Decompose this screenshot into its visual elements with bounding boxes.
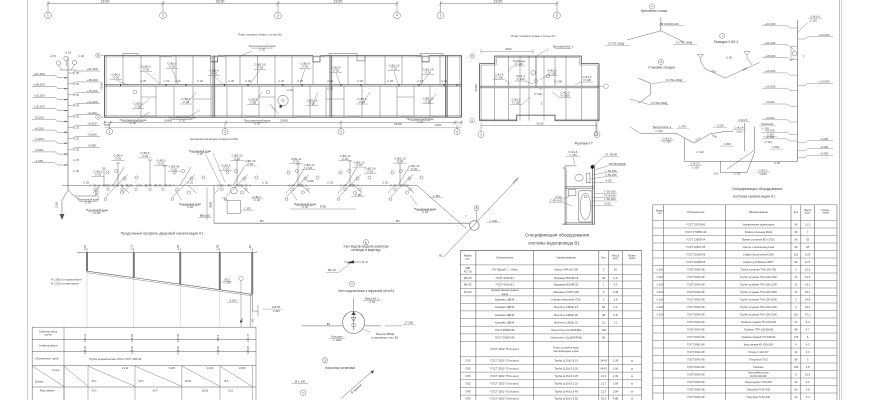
svg-text:0,4: 0,4: [614, 305, 618, 309]
profile table uklon/dlina row: [63, 366, 65, 400]
svg-text:∅ 20: ∅ 20: [174, 79, 181, 83]
svg-text:5,4: 5,4: [806, 320, 810, 324]
svg-text:99,3: 99,3: [224, 277, 230, 281]
svg-text:К-50: К-50: [605, 202, 611, 206]
svg-text:0,46: 0,46: [613, 290, 619, 294]
svg-text:∅ 100: ∅ 100: [569, 153, 577, 157]
svg-text:0,000: 0,000: [773, 145, 780, 149]
svg-text:-1,180: -1,180: [354, 193, 362, 197]
svg-text:∅ 20: ∅ 20: [417, 120, 424, 124]
svg-text:∅ 100: ∅ 100: [495, 76, 503, 80]
axon B1 main pipe: [62, 184, 417, 186]
svg-text:102: 102: [794, 252, 799, 256]
svg-text:ГОСТ 6942-98: ГОСТ 6942-98: [687, 290, 705, 294]
svg-text:ГОСТ 6942-98: ГОСТ 6942-98: [687, 387, 705, 391]
svg-text:∅ 100: ∅ 100: [691, 165, 699, 169]
svg-text:∅ 20: ∅ 20: [257, 66, 264, 70]
svg-text:∅ 15: ∅ 15: [417, 79, 424, 83]
svg-text:96: 96: [602, 276, 605, 280]
svg-text:+3,200: +3,200: [87, 133, 97, 137]
svg-text:∅ 25: ∅ 25: [327, 180, 334, 184]
svg-text:33: 33: [794, 290, 797, 294]
svg-text:+18,200: +18,200: [86, 78, 97, 82]
svg-text:Фрагмент Т: Фрагмент Т: [575, 142, 593, 146]
svg-text:37,-98,98: 37,-98,98: [605, 153, 617, 157]
plan B1 balcony door sills: [143, 116, 154, 118]
svg-text:ГОСТ 6942-98: ГОСТ 6942-98: [687, 282, 705, 286]
svg-text:К-50: К-50: [606, 178, 612, 182]
svg-text:-1,180: -1,180: [432, 194, 440, 198]
svg-text:ГОСТ 3262-75 (в асм.): ГОСТ 3262-75 (в асм.): [490, 389, 519, 393]
svg-text:+9,000: +9,000: [765, 100, 774, 104]
svg-text:∅ 20: ∅ 20: [183, 100, 190, 104]
svg-text:СтК1-2: СтК1-2: [759, 168, 768, 172]
plan B1 stairwell circle: [278, 95, 288, 105]
svg-text:124,43: 124,43: [83, 334, 87, 342]
profile top line: [77, 251, 257, 253]
svg-text:ГОСТ 3262-75 (в асм.): ГОСТ 3262-75 (в асм.): [490, 359, 519, 363]
svg-text:125,2: 125,2: [216, 334, 220, 341]
svg-text:∅ 20: ∅ 20: [425, 100, 432, 104]
svg-text:∅ 20: ∅ 20: [411, 167, 418, 171]
svg-text:∅ 20: ∅ 20: [342, 157, 349, 161]
svg-text:-1,020: -1,020: [716, 124, 724, 128]
svg-text:22,7: 22,7: [601, 382, 607, 386]
svg-text:10,6: 10,6: [805, 372, 811, 376]
svg-text:+3,200: +3,200: [34, 137, 44, 141]
svg-text:Выпуск КК1-1: Выпуск КК1-1: [653, 125, 672, 129]
riser B1 top fixtures: [56, 61, 60, 65]
svg-text:∅ 20: ∅ 20: [163, 79, 170, 83]
svg-text:Стыковка отводов: Стыковка отводов: [648, 65, 675, 69]
svg-text:0,050: 0,050: [239, 366, 246, 370]
svg-text:13100: 13100: [435, 124, 442, 127]
svg-text:∅ 20: ∅ 20: [425, 71, 432, 75]
svg-text:Компакс ЦВНА: Компакс ЦВНА: [495, 298, 515, 302]
svg-text:96: 96: [794, 260, 797, 264]
svg-text:0 СТЕ-166Д: 0 СТЕ-166Д: [676, 40, 692, 44]
plan K1 mid wall: [480, 85, 599, 87]
svg-text:∅ 20: ∅ 20: [223, 166, 230, 170]
svg-text:∅ 100: ∅ 100: [583, 78, 591, 82]
svg-text:Г-50-250: Г-50-250: [605, 173, 617, 177]
svg-text:45.7.05: 45.7.05: [464, 271, 472, 273]
svg-text:∅ 20: ∅ 20: [357, 79, 364, 83]
svg-text:28: 28: [806, 245, 809, 249]
svg-text:ГОСТ 6942-98: ГОСТ 6942-98: [687, 327, 705, 331]
svg-text:∅ 25: ∅ 25: [140, 79, 147, 83]
svg-text:∅ 20: ∅ 20: [197, 79, 204, 83]
svg-text:∅ 20: ∅ 20: [95, 172, 102, 176]
svg-text:Клапан обратный ∅50.: Клапан обратный ∅50.: [551, 298, 581, 302]
svg-text:Длина: Длина: [35, 380, 43, 384]
svg-text:Труба Ц-50х3.5 50: Труба Ц-50х3.5 50: [554, 397, 578, 400]
svg-text:∅ 25: ∅ 25: [73, 104, 80, 108]
svg-text:ГОСТ 6942-98: ГОСТ 6942-98: [687, 320, 705, 324]
svg-text:26,0: 26,0: [805, 305, 811, 309]
svg-text:∅ 20: ∅ 20: [356, 163, 363, 167]
svg-text:В1: В1: [327, 322, 331, 326]
svg-text:Вентиль 15Б3р 15: Вентиль 15Б3р 15: [554, 305, 578, 309]
plan B1 partitions upper band: [122, 56, 124, 85]
svg-text:газопроводные оцинк.: газопроводные оцинк.: [553, 350, 579, 353]
svg-text:ГОСТ 6942-98: ГОСТ 6942-98: [687, 380, 705, 384]
svg-text:0,025: 0,025: [169, 366, 176, 370]
svg-text:+12,200: +12,200: [86, 100, 97, 104]
svg-text:24,8: 24,8: [805, 297, 811, 301]
svg-text:22,3: 22,3: [601, 389, 607, 393]
riser K1 vertical: [797, 20, 799, 161]
svg-text:3: 3: [277, 14, 279, 18]
svg-text:0,100: 0,100: [207, 366, 214, 370]
axon B1 watermeter circle: [231, 187, 238, 194]
svg-text:9640: 9640: [505, 47, 512, 51]
svg-text:4,3: 4,3: [614, 283, 618, 287]
svg-text:+12,200: +12,200: [33, 105, 44, 109]
svg-text:1: 1: [109, 130, 111, 134]
svg-text:-7,035: -7,035: [272, 309, 280, 313]
svg-text:Узел подключения к наружной се: Узел подключения к наружной сети В1: [338, 289, 395, 293]
svg-text:∅ 100: ∅ 100: [517, 77, 525, 81]
svg-text:178: 178: [794, 335, 799, 339]
svg-text:1: 1: [440, 14, 442, 18]
svg-text:88: 88: [794, 327, 797, 331]
svg-text:В1: В1: [396, 219, 400, 223]
K1 low horizontal main: [684, 160, 797, 162]
svg-text:Наименование: Наименование: [557, 256, 577, 260]
svg-text:ГОСТ 25809-96: ГОСТ 25809-96: [495, 336, 515, 340]
svg-text:-2,100: -2,100: [766, 135, 775, 139]
svg-text:ГОСТ 3262-75 (в асм.): ГОСТ 3262-75 (в асм.): [490, 382, 519, 386]
svg-text:18,60: 18,60: [202, 388, 209, 392]
svg-text:23100: 23100: [334, 0, 343, 4]
svg-text:∅ 20: ∅ 20: [113, 76, 120, 80]
svg-text:23,00: 23,00: [537, 121, 544, 125]
svg-text:∅ 20: ∅ 20: [254, 122, 261, 126]
svg-text:6,000: 6,000: [230, 298, 237, 302]
svg-text:10: 10: [602, 320, 605, 324]
svg-text:СтК1-2: СтК1-2: [691, 162, 700, 166]
svg-text:ПР-98.5Эх98: ПР-98.5Эх98: [609, 162, 626, 166]
svg-text:125,98: 125,98: [176, 334, 180, 342]
svg-text:∅ 25: ∅ 25: [73, 93, 80, 97]
svg-text:Трубы стальные водо-: Трубы стальные водо-: [553, 345, 580, 349]
svg-text:1,66: 1,66: [613, 366, 619, 370]
svg-text:24: 24: [794, 387, 797, 391]
svg-text:∅ 20: ∅ 20: [367, 169, 374, 173]
svg-text:Труба чугунная ТЧК-100-2200: Труба чугунная ТЧК-100-2200: [740, 312, 777, 316]
svg-text:13,9: 13,9: [805, 275, 811, 279]
plan K1 dim 9640: [481, 50, 533, 52]
riser stack B1 (left elevation ladder): [67, 57, 69, 190]
svg-text:∅ 100: ∅ 100: [534, 92, 542, 96]
svg-text:ГОСТ 6019-83: ГОСТ 6019-83: [496, 283, 515, 287]
svg-text:∅100: ∅100: [656, 275, 663, 279]
svg-text:∅ 20: ∅ 20: [169, 65, 176, 69]
svg-text:на вводе в квартиру: на вводе в квартиру: [351, 248, 381, 252]
svg-text:∅ 25: ∅ 25: [73, 71, 80, 75]
svg-text:+21,000: +21,000: [765, 41, 776, 45]
svg-text:ГОСТ 23658-94: ГОСТ 23658-94: [686, 237, 705, 241]
svg-text:поз.: поз.: [657, 212, 662, 215]
svg-text:Тройник прямой ТП-100х100: Тройник прямой ТП-100х100: [741, 320, 777, 324]
svg-text:ГОСТ 6942-98: ГОСТ 6942-98: [687, 395, 705, 399]
svg-text:3,09: 3,09: [613, 382, 619, 386]
svg-text:1250: 1250: [55, 202, 59, 208]
svg-text:+13,500: +13,500: [819, 80, 830, 84]
svg-text:∅ 25: ∅ 25: [382, 180, 389, 184]
svg-text:∅100: ∅100: [656, 282, 663, 286]
fragment T walls: [562, 166, 576, 168]
svg-text:+15,200: +15,200: [86, 89, 97, 93]
svg-text:3,3: 3,3: [806, 350, 810, 354]
svg-text:3,84: 3,84: [613, 389, 619, 393]
svg-text:Переходник П-50-250: Переходник П-50-250: [745, 380, 772, 384]
plan K1 bottom dimension: [481, 124, 597, 126]
svg-text:Кол: Кол: [601, 256, 606, 260]
svg-text:Спецификация оборудования: Спецификация оборудования: [525, 233, 590, 238]
sheet frame left border: [27, 0, 29, 400]
svg-text:ГОСТ 6942-98: ГОСТ 6942-98: [687, 365, 705, 369]
svg-text:18,60: 18,60: [185, 379, 192, 383]
v zdanie arrow: [341, 372, 372, 399]
svg-text:98: 98: [602, 313, 605, 317]
svg-text:+2,100: +2,100: [765, 129, 774, 133]
svg-text:+6,000: +6,000: [765, 116, 774, 120]
plan B1 outer walls: [105, 55, 211, 57]
svg-text:+15,000: +15,000: [765, 69, 776, 73]
svg-text:Сифон бутылочный СВН: Сифон бутылочный СВН: [743, 252, 774, 256]
svg-text:∅ 20: ∅ 20: [211, 72, 218, 76]
svg-text:∅100: ∅100: [656, 267, 663, 271]
svg-text:∅ 20: ∅ 20: [142, 154, 149, 158]
svg-text:ГОСТ 6942-98: ГОСТ 6942-98: [687, 335, 705, 339]
svg-text:Труба Ц-32х3.2 32: Труба Ц-32х3.2 32: [554, 382, 578, 386]
plan B1 bottom dimension line: [105, 122, 462, 124]
svg-text:128,00: 128,00: [216, 346, 220, 354]
svg-text:∅ 20: ∅ 20: [94, 211, 101, 215]
svg-text:∅ 100: ∅ 100: [548, 72, 556, 76]
K1 vypusk pipe: [640, 132, 676, 134]
svg-text:∅100: ∅100: [656, 297, 663, 301]
svg-text:∅15: ∅15: [465, 359, 471, 363]
fragment T bathtub: [579, 191, 592, 222]
svg-text:∅ 25: ∅ 25: [73, 126, 80, 130]
plan K1 outer walls: [480, 56, 599, 63]
svg-text:∅ 200: ∅ 200: [223, 281, 231, 285]
svg-text:В-100: В-100: [464, 290, 472, 294]
svg-text:96: 96: [794, 222, 797, 226]
plan K1 right tick: [599, 85, 604, 87]
axon B1 vertical connector: [213, 185, 215, 223]
svg-text:∅ 20: ∅ 20: [397, 159, 404, 163]
svg-text:Трубы керамические 150 н ГОС: Трубы керамические 150 н ГОСТ 286-82: [89, 357, 142, 361]
svg-text:системы канализации К1: системы канализации К1: [733, 194, 776, 198]
svg-text:-1,800: -1,800: [723, 142, 731, 146]
svg-text:+15,200: +15,200: [33, 94, 44, 98]
svg-text:0 СТЕ-166Д: 0 СТЕ-166Д: [608, 42, 624, 46]
svg-text:∅ 20: ∅ 20: [197, 152, 204, 156]
svg-text:∅ 20: ∅ 20: [143, 68, 150, 72]
svg-text:ГОСТ 30288-96: ГОСТ 30288-96: [686, 260, 705, 264]
svg-text:24: 24: [794, 380, 797, 384]
svg-text:Т: Т: [465, 214, 467, 218]
svg-text:1: 1: [47, 14, 49, 18]
svg-text:124,76: 124,76: [246, 334, 250, 342]
axis bubbles 1-4: [45, 12, 52, 19]
svg-text:192: 192: [601, 328, 606, 332]
svg-text:0,00: 0,00: [714, 172, 719, 175]
svg-text:Отметка земли: Отметка земли: [39, 344, 58, 348]
svg-text:Патрубок П-50: Патрубок П-50: [749, 357, 768, 361]
node Б: apartment entry valve unit: [363, 240, 368, 245]
svg-text:ГОСТ 25809-96: ГОСТ 25809-96: [495, 328, 515, 332]
svg-text:+9,200: +9,200: [34, 115, 44, 119]
svg-text:+6,200: +6,200: [34, 126, 44, 130]
plan B1 top dip notch 2: [357, 56, 365, 61]
svg-text:∅ 25: ∅ 25: [73, 82, 80, 86]
svg-text:-0,600: -0,600: [306, 179, 314, 183]
svg-text:-,26: -,26: [248, 245, 252, 250]
svg-text:∅ 20: ∅ 20: [158, 161, 165, 165]
detail 7 pipes: [700, 61, 759, 78]
svg-text:4,3: 4,3: [806, 342, 810, 346]
svg-text:м: м: [631, 390, 633, 393]
svg-text:-0,950: -0,950: [88, 144, 97, 148]
svg-text:128: 128: [794, 365, 799, 369]
axon B1 extra x symbols: [106, 184, 109, 187]
svg-text:м: м: [631, 360, 633, 363]
svg-text:ГОСТ 6942-98: ГОСТ 6942-98: [687, 267, 705, 271]
svg-text:-1,050: -1,050: [35, 159, 44, 163]
svg-text:1: 1: [480, 133, 482, 137]
svg-text:∅ 32: ∅ 32: [262, 180, 269, 184]
svg-text:23100: 23100: [494, 0, 503, 4]
detail 7 bubble: [720, 33, 725, 38]
plan B1 heavy cross walls: [212, 56, 214, 118]
svg-text:ГОСТ Р 50851-96: ГОСТ Р 50851-96: [685, 230, 707, 234]
svg-text:-2,300: -2,300: [820, 145, 829, 149]
K1 vertical stack lines: [744, 123, 746, 151]
svg-text:А: А: [471, 119, 473, 123]
svg-text:∅ 20: ∅ 20: [302, 205, 309, 209]
svg-text:Г-50-4,00: Г-50-4,00: [551, 199, 563, 203]
svg-text:15,5: 15,5: [224, 379, 230, 383]
svg-text:∅ 15: ∅ 15: [65, 51, 72, 55]
svg-text:∅ 20: ∅ 20: [309, 102, 316, 106]
svg-text:18,1: 18,1: [805, 290, 811, 294]
node 3: pump unit: [322, 358, 327, 363]
svg-text:Компакс ЦВНА: Компакс ЦВНА: [495, 320, 515, 324]
svg-text:24: 24: [794, 320, 797, 324]
svg-text:∅ 20: ∅ 20: [293, 160, 300, 164]
svg-text:+21,000: +21,000: [765, 22, 776, 26]
svg-text:Унитаз с косым выпуском: Унитаз с косым выпуском: [743, 245, 775, 249]
svg-text:В1: В1: [260, 219, 264, 223]
svg-text:в наружную сеть В1: в наружную сеть В1: [372, 336, 399, 340]
svg-text:∅ 20: ∅ 20: [422, 210, 429, 214]
well top marker: [474, 206, 479, 211]
svg-text:Патрубок П-50-400: Патрубок П-50-400: [747, 395, 771, 399]
K1 zigzag pipes: [676, 133, 694, 143]
svg-text:∅ 20: ∅ 20: [234, 156, 241, 160]
svg-text:∅50: ∅50: [465, 397, 471, 400]
svg-text:ГОСТ 3262-75 (в асм.): ГОСТ 3262-75 (в асм.): [490, 347, 519, 351]
svg-text:ГОСТ 6942-98: ГОСТ 6942-98: [687, 275, 705, 279]
svg-text:128,00: 128,00: [83, 346, 87, 354]
profile end drop: [251, 294, 253, 311]
svg-text:∅ 25: ∅ 25: [327, 87, 334, 91]
svg-text:Манометр МТП-100: Манометр МТП-100: [553, 290, 579, 294]
svg-text:Вентиль 15Б3р 20: Вентиль 15Б3р 20: [554, 313, 578, 317]
svg-text:ЦВЯ: ЦВЯ: [465, 268, 470, 270]
svg-text:Труба Ц-25х3.2 25: Труба Ц-25х3.2 25: [554, 374, 578, 378]
svg-text:Колодец: Колодец: [331, 334, 343, 338]
svg-text:Тройник прямой ТП-100х96: Тройник прямой ТП-100х96: [741, 335, 775, 339]
svg-text:∅100: ∅100: [656, 305, 663, 309]
svg-text:Вытяжка КК1-1: Вытяжка КК1-1: [553, 45, 574, 49]
svg-text:23,4: 23,4: [92, 379, 98, 383]
svg-text:2: 2: [224, 130, 226, 134]
svg-text:96: 96: [602, 336, 605, 340]
svg-text:+23,000: +23,000: [819, 33, 830, 37]
plan B1 partitions lower band: [140, 86, 142, 117]
svg-text:Продольный профиль дворовой ка: Продольный профиль дворовой канализации …: [121, 231, 204, 235]
svg-text:Насос UPA 40-105: Насос UPA 40-105: [554, 268, 578, 272]
svg-text:∅ 50: ∅ 50: [774, 161, 781, 165]
svg-text:0,210: 0,210: [122, 366, 129, 370]
svg-text:План типового этажа с сетью В1: План типового этажа с сетью В1: [238, 32, 282, 36]
svg-text:чание: чание: [822, 211, 829, 214]
profile filled dot above table: [240, 320, 242, 322]
svg-text:∅ 25: ∅ 25: [228, 79, 235, 83]
svg-text:системы водопровода В1: системы водопровода В1: [528, 240, 580, 245]
plan K1 stack vertical pipe: [535, 56, 537, 88]
svg-text:∅ 20: ∅ 20: [441, 79, 448, 83]
svg-text:∅ 20: ∅ 20: [171, 167, 178, 171]
svg-text:4,7: 4,7: [806, 327, 810, 331]
svg-text:∅ 20: ∅ 20: [302, 65, 309, 69]
svg-text:12: 12: [794, 282, 797, 286]
svg-text:Сифон для Ванны СВПТ: Сифон для Ванны СВПТ: [743, 260, 774, 264]
axon B1 star clusters: [117, 175, 128, 186]
svg-text:∅ 1000: ∅ 1000: [332, 338, 342, 342]
svg-text:∅ 20: ∅ 20: [327, 79, 334, 83]
svg-text:ГОСТ 6942-98: ГОСТ 6942-98: [687, 312, 705, 316]
svg-text:завод: завод: [501, 293, 508, 296]
svg-text:Обозначение трубы: Обозначение трубы: [35, 357, 59, 361]
svg-text:ГОСТ 30288-96: ГОСТ 30288-96: [686, 252, 705, 256]
svg-text:2,11: 2,11: [130, 244, 134, 250]
svg-text:ГОСТ 6942-98: ГОСТ 6942-98: [687, 342, 705, 346]
svg-text:ВК-15: ВК-15: [464, 276, 472, 280]
svg-text:Мойка стальная МНЦ: Мойка стальная МНЦ: [745, 230, 772, 234]
svg-text:В: В: [97, 54, 99, 58]
svg-text:Г-50-200: Г-50-200: [604, 197, 616, 201]
svg-text:∅100: ∅100: [656, 290, 663, 294]
svg-text:∅ 20: ∅ 20: [259, 47, 266, 51]
svg-text:Ревизия: Ревизия: [753, 365, 764, 369]
svg-text:0,23: 0,23: [805, 252, 811, 256]
svg-text:96: 96: [794, 230, 797, 234]
svg-text:126,58: 126,58: [130, 334, 134, 342]
svg-text:128,00: 128,00: [130, 346, 134, 354]
plan K1 leaders: [508, 66, 513, 72]
svg-text:ГОСТ 6942-98: ГОСТ 6942-98: [687, 297, 705, 301]
svg-text:+18,000: +18,000: [765, 54, 776, 58]
svg-text:∅ 20: ∅ 20: [187, 205, 194, 209]
axon B1 fixture clusters: [94, 184, 97, 187]
